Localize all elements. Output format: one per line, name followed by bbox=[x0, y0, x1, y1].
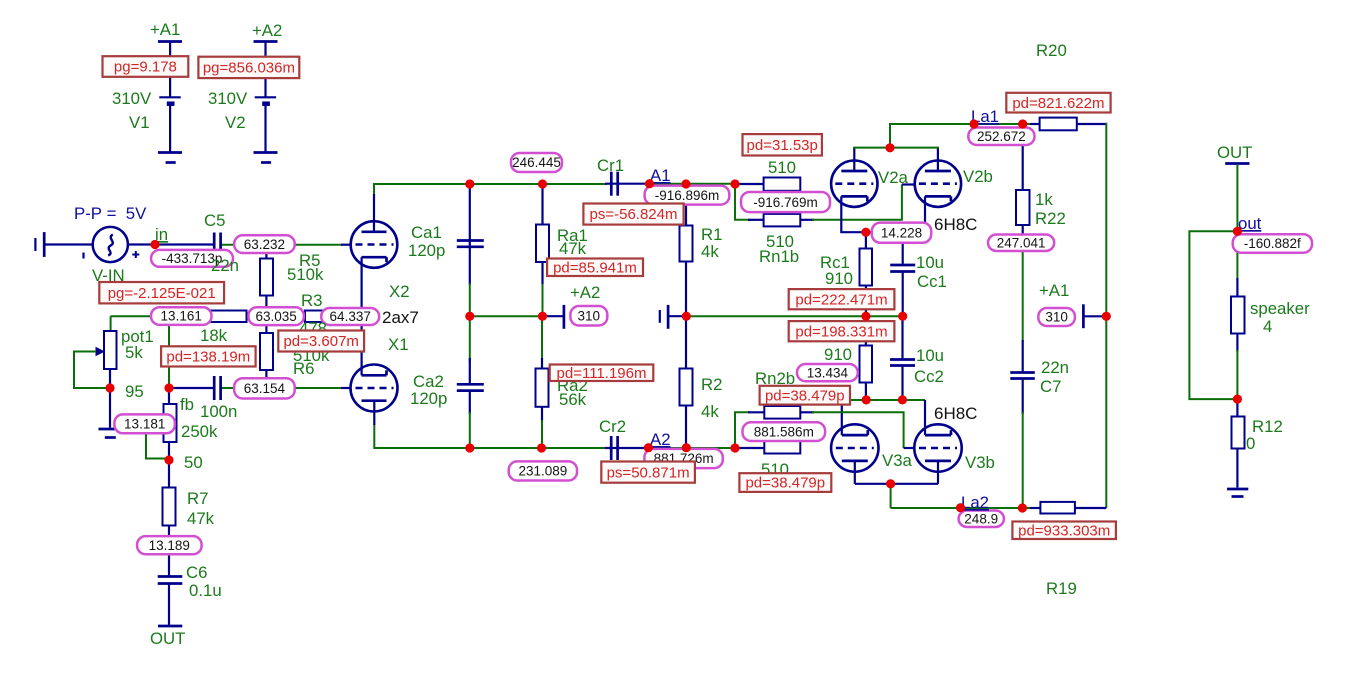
svg-text:speaker: speaker bbox=[1250, 299, 1310, 318]
svg-text:1k: 1k bbox=[1035, 190, 1053, 209]
junction V2 plates bbox=[885, 143, 894, 152]
wire R5 bottom / R6 top node 63.035 bbox=[265, 296, 267, 334]
wire R6 bottom lead bbox=[265, 370, 267, 388]
svg-text:910: 910 bbox=[825, 269, 853, 288]
terminal +A2 left bar bbox=[563, 305, 566, 329]
junction mid +A1 rail bbox=[1102, 312, 1111, 321]
node voltage box 64.337 bbox=[321, 308, 379, 325]
name label R3 bbox=[301, 291, 322, 310]
svg-text:Rn1b: Rn1b bbox=[759, 247, 799, 266]
value label C5 22n bbox=[211, 256, 239, 275]
svg-text:2ax7: 2ax7 bbox=[382, 308, 419, 327]
value label Ra2 56k bbox=[559, 390, 587, 409]
svg-text:50: 50 bbox=[184, 453, 203, 472]
power label Rn2b pd=38.479p bbox=[739, 473, 831, 492]
svg-text:La2: La2 bbox=[961, 493, 989, 512]
svg-text:0.1u: 0.1u bbox=[189, 581, 222, 600]
value label R1 4k bbox=[701, 242, 719, 261]
svg-text:R2: R2 bbox=[701, 375, 722, 394]
junction mid Ra1 bbox=[538, 312, 547, 321]
svg-text:X1: X1 bbox=[388, 335, 409, 354]
wire V3 plates to La2 bbox=[855, 461, 938, 508]
svg-text:63.035: 63.035 bbox=[255, 309, 296, 324]
wire Rn1b to V2b grid bbox=[800, 185, 915, 220]
svg-text:10u: 10u bbox=[916, 253, 944, 272]
junction mid R1 R2 bbox=[682, 312, 691, 321]
junction node 50 bbox=[164, 455, 173, 464]
name label C5 bbox=[204, 211, 225, 230]
capacitor Cr2 bbox=[611, 436, 617, 460]
svg-text:Cc2: Cc2 bbox=[914, 367, 944, 386]
svg-text:13.189: 13.189 bbox=[149, 538, 190, 553]
svg-text:4: 4 bbox=[1263, 317, 1272, 336]
node voltage box 63.232 bbox=[234, 235, 295, 253]
svg-text:Ca1: Ca1 bbox=[411, 223, 442, 242]
triode X2 bbox=[351, 221, 398, 268]
node voltage box 247.041 bbox=[988, 235, 1054, 252]
node voltage box 63.035 bbox=[248, 307, 304, 325]
node label in bbox=[155, 225, 168, 244]
svg-text:248.9: 248.9 bbox=[964, 512, 998, 527]
svg-text:OUT: OUT bbox=[1217, 143, 1252, 162]
wire pot bottom to ground bbox=[109, 369, 111, 428]
name label R19 bbox=[1046, 579, 1077, 598]
svg-text:pd=933.303m: pd=933.303m bbox=[1018, 523, 1110, 540]
value label C6 0.1u bbox=[189, 581, 222, 600]
svg-text:310: 310 bbox=[578, 308, 601, 323]
junction A1 Ra1 bbox=[538, 179, 547, 188]
wire node 63.232: C5 to X2 grid bbox=[222, 245, 352, 259]
name label Cc1 bbox=[917, 272, 947, 291]
capacitor Ca2 bbox=[457, 384, 484, 390]
name label R20 bbox=[1036, 41, 1067, 60]
svg-text:R22: R22 bbox=[1035, 209, 1066, 228]
svg-text:pd=198.331m: pd=198.331m bbox=[795, 323, 887, 340]
type label 6H8C bottom bbox=[934, 404, 977, 423]
svg-text:510: 510 bbox=[768, 158, 796, 177]
value label Rn1b 510 bbox=[766, 232, 794, 251]
value label C7 22n bbox=[1041, 358, 1069, 377]
junction V3 cathode Cc2 bbox=[898, 395, 907, 404]
svg-text:56k: 56k bbox=[559, 390, 587, 409]
type label 6H8C top bbox=[934, 215, 977, 234]
ground R12 bbox=[1227, 489, 1248, 497]
node voltage box La1 252.672 bbox=[968, 128, 1034, 146]
name label Ra1 bbox=[557, 226, 588, 245]
wire R12 to ground bbox=[1236, 399, 1238, 487]
triode X1 flipped bbox=[351, 365, 398, 412]
wire pot wiper feedback loop bbox=[74, 352, 108, 389]
resistor fb 250k bbox=[164, 404, 177, 442]
svg-text:14.228: 14.228 bbox=[881, 225, 922, 240]
resistor Ra1 47k bbox=[536, 225, 549, 263]
capacitor Cc2 bbox=[890, 360, 915, 366]
value label speaker 4 bbox=[1263, 317, 1272, 336]
node voltage box in -433.713p bbox=[151, 250, 233, 267]
junction node fb bbox=[164, 383, 173, 392]
node +A1 label mid bbox=[1039, 281, 1069, 300]
node voltage box 13.161 bbox=[151, 307, 212, 325]
svg-text:+A1: +A1 bbox=[1039, 281, 1069, 300]
wire Ra2 branch bbox=[541, 316, 543, 448]
node voltage box 63.154 bbox=[234, 378, 295, 398]
wire V3 cathode rail y400 bbox=[842, 400, 925, 435]
svg-text:231.089: 231.089 bbox=[518, 464, 567, 479]
power label Cr1 ps=-56.824m bbox=[583, 204, 683, 225]
wire R1 branch bbox=[685, 184, 687, 316]
svg-text:10u: 10u bbox=[916, 346, 944, 365]
wire X2 X1 cathode link to node 64.337 bbox=[361, 257, 363, 375]
node label out bbox=[1238, 214, 1262, 233]
node voltage box 881.586m bbox=[743, 422, 826, 441]
wire grid divider bottom: A2 dot to Rn2a bbox=[735, 412, 764, 448]
power label Rn2a pd=38.479p bbox=[760, 386, 850, 405]
terminal OUT right bbox=[1225, 162, 1249, 165]
svg-text:Cr1: Cr1 bbox=[597, 156, 624, 175]
svg-text:95: 95 bbox=[125, 382, 144, 401]
ground pot1 bbox=[99, 429, 123, 438]
junction A2 R2 bbox=[682, 443, 691, 452]
svg-text:ps=-56.824m: ps=-56.824m bbox=[590, 206, 678, 223]
value label Rn2b 510 bbox=[761, 460, 789, 479]
junction A1 R1 bbox=[681, 179, 690, 188]
power label Cr2 ps=50.871m bbox=[601, 462, 695, 483]
svg-text:310: 310 bbox=[1045, 310, 1068, 325]
junction La1 label bbox=[969, 119, 978, 128]
power label V2 pg=856.036m bbox=[198, 57, 299, 78]
node label OUT bottom bbox=[150, 629, 185, 648]
svg-text:510k: 510k bbox=[287, 265, 324, 284]
node voltage box +A2 310 bbox=[570, 306, 607, 326]
value label Ra1 47k bbox=[559, 239, 587, 258]
svg-text:X2: X2 bbox=[389, 282, 410, 301]
triode V3a flipped bbox=[831, 424, 878, 471]
wire node 50 to R7 to C6 to OUT bbox=[168, 460, 170, 626]
svg-text:ps=50.871m: ps=50.871m bbox=[607, 464, 690, 481]
name label X1 bbox=[388, 335, 409, 354]
svg-text:Cr2: Cr2 bbox=[599, 417, 626, 436]
node label La1 bbox=[971, 107, 999, 126]
name label R12 bbox=[1252, 417, 1283, 436]
wire Cc1 branch bbox=[902, 232, 904, 316]
terminal +A1 bar bbox=[1082, 304, 1085, 328]
node voltage box +A1 310 bbox=[1038, 308, 1075, 326]
svg-text:OUT: OUT bbox=[150, 629, 185, 648]
power label Rn1a pd=31.53p bbox=[743, 134, 822, 155]
svg-text:246.445: 246.445 bbox=[512, 155, 561, 170]
junction A2 divider bbox=[730, 443, 739, 452]
battery V1 bbox=[158, 42, 182, 152]
junction A2 label bbox=[644, 443, 653, 452]
power label R20 pd=821.622m bbox=[1006, 93, 1110, 113]
svg-text:18k: 18k bbox=[200, 326, 228, 345]
node voltage box -916.769m bbox=[741, 192, 830, 212]
svg-text:22n: 22n bbox=[1041, 358, 1069, 377]
svg-text:C5: C5 bbox=[204, 211, 225, 230]
resistor Rn1a 510 bbox=[764, 178, 801, 191]
value label R2 4k bbox=[701, 402, 719, 421]
resistor R22 1k bbox=[1016, 190, 1030, 225]
svg-text:247.041: 247.041 bbox=[997, 235, 1046, 250]
wire R2 branch bbox=[685, 316, 687, 448]
svg-text:pg=-2.125E-021: pg=-2.125E-021 bbox=[108, 285, 216, 302]
svg-text:47k: 47k bbox=[559, 239, 587, 258]
ground V2 bbox=[254, 153, 278, 163]
resistor R7 47k bbox=[163, 488, 176, 526]
svg-text:-916.769m: -916.769m bbox=[753, 195, 818, 210]
svg-text:pd=31.53p: pd=31.53p bbox=[747, 137, 818, 154]
svg-text:4k: 4k bbox=[701, 242, 719, 261]
junction La2 label bbox=[956, 503, 965, 512]
resistor Rc2 910 bbox=[860, 346, 873, 383]
label P-P = 5V bbox=[74, 204, 147, 223]
junction node out bbox=[1233, 227, 1242, 236]
junction A1 label bbox=[645, 179, 654, 188]
value label R7 47k bbox=[187, 509, 215, 528]
svg-text:V2: V2 bbox=[225, 113, 246, 132]
value label Cc2 10u bbox=[916, 346, 944, 365]
value label 2ax7 bbox=[382, 308, 419, 327]
value label fb 250k bbox=[181, 422, 218, 441]
node voltage box 246.445 bbox=[511, 153, 562, 172]
svg-text:310V: 310V bbox=[112, 89, 152, 108]
power label Ra2 pd=111.196m bbox=[550, 365, 654, 382]
name label C7 bbox=[1040, 377, 1061, 396]
terminal +A2 right battery bbox=[660, 305, 668, 329]
wire Rc2 branch bbox=[865, 316, 867, 400]
node label La2 bbox=[961, 493, 989, 512]
svg-text:+A2: +A2 bbox=[570, 283, 600, 302]
svg-text:R20: R20 bbox=[1036, 41, 1067, 60]
resistor Rn2b 510 bbox=[764, 441, 800, 454]
name label R1 bbox=[701, 225, 722, 244]
node voltage box A1 -916.896m bbox=[645, 186, 730, 205]
junction A1 divider bbox=[730, 179, 739, 188]
svg-text:pd=38.479p: pd=38.479p bbox=[745, 475, 825, 492]
wire Rc1 branch bbox=[865, 232, 867, 316]
node voltage box out -160.882f bbox=[1233, 234, 1312, 253]
name label V2b bbox=[963, 167, 993, 186]
node +A1 label top bbox=[150, 20, 180, 39]
resistor R20 bbox=[1040, 118, 1077, 131]
svg-text:V3a: V3a bbox=[882, 451, 913, 470]
svg-text:5k: 5k bbox=[125, 343, 143, 362]
svg-text:pd=38.479p: pd=38.479p bbox=[765, 387, 845, 404]
resistor Rn1b 510 bbox=[764, 214, 801, 227]
power label V1 pg=9.178 bbox=[103, 56, 189, 77]
svg-text:V3b: V3b bbox=[965, 453, 995, 472]
name label V3a bbox=[882, 451, 913, 470]
svg-text:pd=85.941m: pd=85.941m bbox=[553, 259, 637, 276]
junction La2 C7 bbox=[1018, 503, 1027, 512]
wire Ra1 branch bbox=[541, 184, 543, 316]
wire net A2 bottom rail bbox=[374, 401, 764, 448]
wire R22 C7 branch bbox=[1022, 124, 1024, 508]
name label R6 bbox=[293, 359, 314, 378]
name label V1 bbox=[129, 113, 150, 132]
name label R7 bbox=[187, 489, 208, 508]
svg-text:P-P = 5V: P-P = 5V bbox=[74, 204, 147, 223]
name label V-IN bbox=[92, 266, 125, 285]
svg-text:pd=222.471m: pd=222.471m bbox=[795, 291, 887, 308]
node +A2 label mid bbox=[570, 283, 600, 302]
junction V3 plates bbox=[886, 479, 895, 488]
wire Ca2 branch bbox=[469, 316, 471, 448]
capacitor C5 bbox=[214, 233, 220, 257]
power label R19 pd=933.303m bbox=[1012, 522, 1116, 540]
wire +A1 terminal lead bbox=[1083, 315, 1106, 317]
junction node 14.228 bbox=[861, 228, 870, 237]
name label V3b bbox=[965, 453, 995, 472]
wire mid rail +A2 right bbox=[668, 315, 903, 317]
name label V2a bbox=[878, 168, 909, 187]
wire net La2 rail bbox=[891, 507, 1107, 509]
wire node 13.161 down to fb node bbox=[168, 320, 170, 388]
junction A2 Ca2 bbox=[465, 443, 474, 452]
node voltage box 13.189 bbox=[137, 536, 202, 554]
wire net A1 top rail bbox=[374, 184, 764, 232]
junction V3 cathode Rc2 bbox=[862, 395, 871, 404]
resistor R2 4k bbox=[680, 369, 693, 406]
value label Rc1 910 bbox=[825, 269, 853, 288]
node label OUT right bbox=[1217, 143, 1252, 162]
svg-text:pd=111.196m: pd=111.196m bbox=[557, 365, 647, 382]
svg-text:C6: C6 bbox=[186, 563, 207, 582]
name label Cc2 bbox=[914, 367, 944, 386]
node voltage box 231.089 bbox=[509, 461, 577, 480]
value label Ca1 120p bbox=[408, 241, 445, 260]
svg-text:-160.882f: -160.882f bbox=[1244, 236, 1301, 251]
name label Ca2 bbox=[413, 372, 444, 391]
name label X2 bbox=[389, 282, 410, 301]
svg-text:+A2: +A2 bbox=[252, 21, 282, 40]
power label R3 pd=3.607m bbox=[278, 331, 364, 352]
svg-text:R6: R6 bbox=[293, 359, 314, 378]
power label pot1 pd=138.19m bbox=[161, 346, 256, 366]
input terminal bars bbox=[35, 232, 44, 257]
name label C6 bbox=[186, 563, 207, 582]
name label Cr1 bbox=[597, 156, 624, 175]
terminal OUT bottom bbox=[158, 625, 182, 628]
svg-text:100n: 100n bbox=[200, 402, 237, 421]
name label pot1 bbox=[121, 327, 154, 346]
name label V2 bbox=[225, 113, 246, 132]
svg-text:22n: 22n bbox=[211, 256, 239, 275]
wire input net to source bbox=[45, 243, 93, 245]
node label 95 bbox=[125, 382, 144, 401]
node voltage box A2 881.726m bbox=[644, 449, 722, 468]
svg-text:120p: 120p bbox=[410, 389, 447, 408]
wire node in: source to C5 bbox=[128, 243, 214, 245]
svg-text:pd=821.622m: pd=821.622m bbox=[1012, 95, 1104, 112]
junction mid Cc1 bbox=[898, 312, 907, 321]
node label A2 bbox=[650, 430, 671, 449]
node voltage box 13.181 bbox=[114, 414, 174, 433]
wire speaker loop bbox=[1189, 231, 1237, 399]
junction mid Rc1 bbox=[861, 312, 870, 321]
svg-text:64.337: 64.337 bbox=[330, 309, 371, 324]
value label V1 310V bbox=[112, 89, 152, 108]
wire fb resistor leads bbox=[168, 388, 170, 460]
resistor Ra2 56k bbox=[536, 369, 549, 407]
svg-text:A2: A2 bbox=[650, 430, 671, 449]
wire node 13.181 to node 50 bbox=[146, 431, 169, 459]
svg-text:47k: 47k bbox=[187, 509, 215, 528]
name label Ra2 bbox=[557, 376, 588, 395]
svg-text:pg=856.036m: pg=856.036m bbox=[203, 60, 295, 77]
svg-text:R12: R12 bbox=[1252, 417, 1283, 436]
junction A1 Ca1 bbox=[465, 179, 474, 188]
svg-text:63.154: 63.154 bbox=[244, 381, 286, 396]
name label R2 bbox=[701, 375, 722, 394]
svg-text:+A1: +A1 bbox=[150, 20, 180, 39]
wire Rn2a to V3b grid bbox=[800, 412, 914, 448]
ground V1 bbox=[158, 153, 182, 163]
name label R5 bbox=[299, 251, 320, 270]
svg-text:252.672: 252.672 bbox=[977, 129, 1026, 144]
node label 50 bbox=[184, 453, 203, 472]
wire mid rail +A2 left bbox=[470, 315, 564, 317]
power label Ra1 pd=85.941m bbox=[547, 259, 643, 277]
value label pot1 5k bbox=[125, 343, 143, 362]
svg-text:910: 910 bbox=[824, 345, 852, 364]
svg-text:0: 0 bbox=[1246, 434, 1255, 453]
junction A2 Ra2 bbox=[537, 443, 546, 452]
capacitor C6 bbox=[158, 577, 183, 584]
capacitor fb 100n bbox=[214, 376, 220, 400]
value label R6 510k bbox=[293, 346, 330, 365]
name label speaker bbox=[1250, 299, 1310, 318]
svg-text:pd=3.607m: pd=3.607m bbox=[283, 333, 358, 350]
svg-text:C7: C7 bbox=[1040, 377, 1061, 396]
value label R22 1k bbox=[1035, 190, 1053, 209]
wire V2a cathode to node 14.228 bbox=[841, 196, 925, 232]
node voltage box 13.434 bbox=[797, 364, 858, 381]
name label Rc1 bbox=[820, 253, 850, 272]
triode V2b bbox=[915, 161, 961, 207]
svg-text:881.586m: 881.586m bbox=[754, 424, 814, 439]
wire net La1 to R20 and right rail bbox=[1030, 123, 1106, 508]
svg-text:-916.896m: -916.896m bbox=[655, 188, 720, 203]
triode V2a bbox=[831, 161, 877, 207]
resistor R4 18k bbox=[210, 311, 247, 323]
wire Cc2 branch bbox=[901, 316, 903, 400]
junction La1 R22 bbox=[1018, 119, 1027, 128]
wire Ca1 branch bbox=[469, 184, 471, 316]
power label Rc1 pd=222.471m bbox=[789, 289, 895, 309]
svg-text:120p: 120p bbox=[408, 241, 445, 260]
capacitor C7 bbox=[1010, 373, 1035, 379]
value label Rn1a 510 bbox=[768, 158, 796, 177]
junction node in bbox=[150, 240, 159, 249]
source V-IN sine bbox=[84, 227, 140, 262]
name label Rn1b bbox=[759, 247, 799, 266]
resistor Rc1 910 bbox=[860, 249, 873, 286]
svg-text:63.232: 63.232 bbox=[244, 237, 285, 252]
resistor R6 510k bbox=[260, 333, 273, 370]
capacitor Cc1 bbox=[890, 265, 915, 272]
wire speaker OUT net bbox=[1236, 165, 1238, 399]
svg-text:fb: fb bbox=[180, 395, 194, 414]
svg-text:Cc1: Cc1 bbox=[917, 272, 947, 291]
name label fb bbox=[180, 395, 194, 414]
node voltage box 14.228 bbox=[872, 223, 931, 243]
resistor R3 478 bbox=[305, 311, 342, 323]
resistor R5 510k bbox=[260, 259, 273, 296]
svg-text:pg=9.178: pg=9.178 bbox=[114, 59, 177, 76]
name label Cr2 bbox=[599, 417, 626, 436]
resistor R1 4k bbox=[680, 226, 693, 262]
